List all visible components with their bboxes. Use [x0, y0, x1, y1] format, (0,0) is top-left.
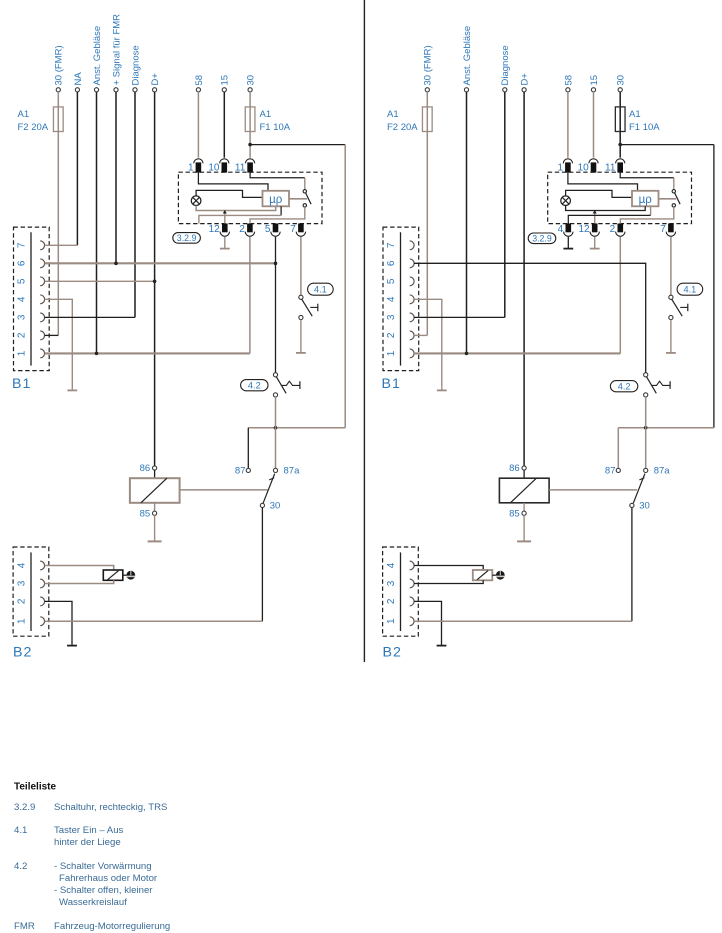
relay coil terminal 85 left: [154, 503, 156, 511]
connector B1 pin 3 socket right: [410, 313, 414, 322]
wire Diagnose line left: [133, 88, 137, 92]
svg-text:86: 86: [509, 463, 520, 474]
wire B1 pin7 to NA left: [45, 244, 78, 246]
relay contact 87a right: [644, 468, 648, 472]
svg-text:30 (FMR): 30 (FMR): [423, 45, 434, 85]
connector B1 pin 7 socket right: [410, 241, 414, 250]
svg-text:2: 2: [16, 332, 27, 338]
wire contact 30 down to B2 pin1 left: [261, 508, 263, 622]
wire microprocessor right to switch lever left: [289, 198, 307, 200]
ground B1 pin4 left: [71, 388, 73, 391]
svg-text:15: 15: [589, 75, 600, 86]
timer pin 11 right: [617, 162, 623, 172]
svg-text:- Schalter Vorwärmung: - Schalter Vorwärmung: [54, 861, 152, 872]
svg-text:NA: NA: [73, 72, 84, 86]
svg-text:F1 10A: F1 10A: [629, 122, 660, 133]
svg-text:10: 10: [208, 162, 220, 173]
svg-text:87: 87: [605, 466, 616, 477]
svg-text:3: 3: [16, 580, 27, 586]
wire timer pin11 to internal switch left: [250, 173, 305, 178]
switch 4.1 right (Taster Ein-Aus): [669, 295, 673, 299]
connector B1 pin 4 socket left: [40, 295, 44, 304]
svg-text:1: 1: [386, 618, 397, 624]
svg-text:6: 6: [16, 260, 27, 266]
timer pin 5 left: [273, 224, 279, 233]
wire Anst. Geblaese line left: [94, 88, 98, 92]
internal switch lever right: [675, 193, 681, 204]
wire microprocessor to box edge left: [280, 206, 282, 215]
connector B2 pin 2 socket right: [410, 597, 414, 606]
wire switch 4.2 to contact 87a left: [275, 397, 277, 468]
svg-text:5: 5: [265, 224, 271, 235]
wire B1 pin1 to timer pin2 left: [45, 352, 250, 354]
connector B1 pin 2 socket left: [40, 331, 44, 340]
svg-text:5: 5: [16, 278, 27, 284]
label 3.2.9 right: [528, 233, 556, 244]
fuse F2 20A left (A1): [53, 107, 63, 132]
svg-text:11: 11: [235, 162, 246, 173]
svg-text:30: 30: [246, 75, 257, 86]
wire terminal 15 left: [222, 88, 226, 92]
wire Anst. Geblaese line right: [464, 88, 468, 92]
svg-text:7: 7: [16, 242, 27, 248]
junction node +Signal on B1 pin6 wire left: [114, 262, 118, 266]
junction node Anst. Geblaese on B1 pin1 wire right: [465, 352, 469, 356]
timer pin 11 left: [247, 162, 253, 172]
wire right-edge drop right: [713, 145, 715, 428]
svg-text:3.2.9: 3.2.9: [177, 233, 197, 243]
svg-text:Schaltuhr, rechteckig, TRS: Schaltuhr, rechteckig, TRS: [54, 802, 167, 813]
relay actuation link left: [180, 489, 268, 491]
svg-text:Diagnose: Diagnose: [500, 45, 511, 85]
svg-text:12: 12: [209, 224, 221, 235]
wire timer pin1 to microprocessor right: [568, 173, 638, 191]
wire microprocessor right to switch lever right: [659, 198, 677, 200]
connector B1 pin 5 socket right: [410, 277, 414, 286]
fuse F1 10A right (A1): [615, 107, 625, 132]
svg-text:4: 4: [386, 296, 397, 302]
svg-text:Teileliste: Teileliste: [14, 782, 56, 793]
svg-text:7: 7: [386, 242, 397, 248]
connector B1 pin 7 socket left: [40, 241, 44, 250]
op-amp U1 microprocessor box left: [263, 191, 290, 207]
pump symbol right: [496, 571, 505, 580]
internal switch lever left: [306, 193, 312, 204]
ground timer pin 4 right: [567, 237, 569, 249]
heater element with pump left: [103, 570, 123, 580]
ground B2 pin2 left: [71, 642, 73, 646]
relay contact 30 left: [260, 503, 264, 507]
svg-text:+ Signal für FMR: + Signal für FMR: [111, 14, 122, 86]
svg-text:4.2: 4.2: [248, 380, 261, 390]
relay actuation link right: [549, 489, 637, 491]
wire terminal 30 right: [618, 88, 622, 92]
ground relay 85 left: [154, 515, 156, 541]
timer pin 2 left: [247, 224, 253, 233]
connector B1 pin 6 socket left: [40, 259, 44, 268]
svg-text:A1: A1: [18, 109, 30, 120]
relay coil terminal 86 right: [522, 466, 526, 470]
svg-text:58: 58: [194, 75, 205, 86]
wire B1 pin5 to D+ left: [45, 280, 155, 282]
svg-text:1: 1: [16, 618, 27, 624]
svg-text:4: 4: [16, 562, 27, 568]
svg-text:4.2: 4.2: [618, 381, 631, 391]
connector B1 pin 5 socket left: [40, 277, 44, 286]
wire terminal 30 left: [248, 88, 252, 92]
wire B2 pin3 to heater left: [45, 580, 114, 583]
svg-text:2: 2: [16, 598, 27, 604]
wire lamp bottom to microprocessor bottom right: [566, 206, 646, 211]
svg-text:30 (FMR): 30 (FMR): [54, 45, 65, 85]
wire B1 pin3 to Diagnose left: [45, 316, 135, 318]
svg-text:1: 1: [16, 350, 27, 356]
svg-text:30: 30: [639, 501, 650, 512]
wire B1 pin4 to ground left: [45, 299, 73, 388]
svg-text:Anst. Gebläse: Anst. Gebläse: [92, 26, 103, 86]
timer pin 10 left: [222, 162, 228, 172]
wire internal switch to timer pin2 right: [620, 207, 674, 223]
svg-text:3.2.9: 3.2.9: [14, 802, 35, 813]
wire D+ line left: [153, 88, 157, 92]
wire B2 pin2 to ground right: [414, 601, 441, 642]
label 4.2 right: [610, 381, 637, 392]
wire branch from fuse F1 to right edge right: [620, 144, 714, 146]
svg-text:4: 4: [386, 562, 397, 568]
connector B1 pin 4 socket right: [410, 295, 414, 304]
label 3.2.9 left: [173, 233, 201, 244]
svg-text:F2 20A: F2 20A: [18, 122, 49, 133]
wire microprocessor to timer pin4 right: [650, 206, 652, 215]
timer pin 2 right: [618, 224, 624, 233]
timer pin 10 right: [591, 162, 597, 172]
wire B1 pin4 to ground right: [414, 299, 442, 388]
svg-text:F1 10A: F1 10A: [260, 122, 291, 133]
svg-text:B2: B2: [383, 645, 402, 661]
wire timer pin11 to internal switch right: [620, 173, 674, 178]
wire timer pin12 arrow link left: [224, 213, 226, 224]
switch 4.2 right (Schalter Vorwaermung): [644, 373, 648, 377]
svg-text:12: 12: [578, 224, 590, 235]
svg-text:1: 1: [558, 162, 564, 173]
wire timer pin12 arrow link right: [594, 213, 596, 224]
svg-text:D+: D+: [520, 73, 531, 86]
connector B2 pin 1 socket left: [40, 617, 44, 626]
svg-text:4: 4: [558, 224, 564, 235]
wire terminal 15 right: [591, 88, 595, 92]
ground B2 pin2 right: [441, 642, 443, 646]
wire D+ line right: [522, 88, 526, 92]
svg-text:- Schalter offen, kleiner: - Schalter offen, kleiner: [54, 885, 153, 896]
wire internal switch to timer pin2 left: [250, 207, 305, 223]
connector B1 spine right: [400, 232, 402, 365]
fuse F2 20A right (A1): [422, 107, 432, 132]
ground B1 pin4 right: [441, 388, 443, 391]
pump symbol left: [126, 571, 135, 580]
wire lamp bottom to microprocessor bottom left: [196, 206, 276, 211]
wire B1 pin6 to switch 4.2 right: [414, 263, 646, 372]
svg-text:3: 3: [16, 314, 27, 320]
wire switch 4.2 to contact 87a right: [645, 397, 647, 468]
svg-text:4: 4: [16, 296, 27, 302]
svg-text:6: 6: [386, 260, 397, 266]
wire B1 pin6 to timer pin5 line left: [45, 262, 276, 264]
svg-text:2: 2: [386, 332, 397, 338]
wire terminal 58 right: [566, 88, 570, 92]
wire B2 pin1 to contact 30 left: [45, 620, 263, 622]
junction node D+ on B1 pin5 wire left: [153, 280, 157, 284]
relay contact 30 right: [630, 503, 634, 507]
svg-text:87a: 87a: [654, 466, 671, 477]
wire B2 pin1 to contact 30 right: [414, 620, 632, 622]
wire B1 pin2 to fuse F2 left: [45, 334, 59, 336]
label 4.2 left: [241, 380, 268, 391]
connector B1 pin 1 socket right: [410, 349, 414, 358]
relay contact 87 left: [247, 428, 249, 469]
svg-text:5: 5: [386, 278, 397, 284]
connector B2 pin 3 socket left: [40, 579, 44, 588]
connector B2 spine right: [400, 552, 402, 631]
connector B2 pin 1 socket right: [410, 617, 414, 626]
ground switch 4.1 right: [670, 320, 672, 353]
svg-text:µρ: µρ: [639, 194, 653, 206]
relay coil diagonal right: [510, 478, 536, 503]
wire B2 pin2 to ground left: [45, 601, 72, 642]
svg-text:D+: D+: [150, 73, 161, 86]
label 4.1 left: [308, 283, 334, 295]
svg-text:FMR: FMR: [14, 921, 35, 932]
svg-text:30: 30: [270, 501, 281, 512]
svg-text:Fahrerhaus oder Motor: Fahrerhaus oder Motor: [59, 873, 158, 884]
svg-text:2: 2: [386, 598, 397, 604]
fuse F1 10A left (A1): [245, 107, 255, 132]
svg-text:4.2: 4.2: [14, 861, 27, 872]
wire B1 pin2 to fuse F2 right: [414, 334, 427, 336]
timer pin 7 left: [298, 224, 304, 233]
connector B2 pin 4 socket right: [410, 561, 414, 570]
timer pin 4 right: [566, 224, 572, 233]
wire + Signal fuer FMR line left: [114, 88, 118, 92]
ground switch 4.1 left: [300, 320, 302, 353]
connector B2 pin 2 socket left: [40, 597, 44, 606]
internal switch contacts right: [672, 190, 675, 193]
svg-text:1: 1: [188, 162, 194, 173]
wire Diagnose line right: [503, 88, 507, 92]
wire 30 (FMR) supply line right: [425, 88, 429, 92]
wire lamp top to microprocessor left: [196, 190, 262, 197]
wire timer pin7 down to switch 4.1 right: [670, 237, 672, 295]
connector B2 pin 3 socket right: [410, 579, 414, 588]
wire right-edge drop left: [344, 145, 346, 428]
svg-text:3: 3: [386, 580, 397, 586]
junction node terminal30/branch left: [248, 143, 252, 147]
lamp symbol inside timer left: [191, 196, 201, 206]
svg-text:hinter der Liege: hinter der Liege: [54, 837, 121, 848]
svg-text:85: 85: [140, 508, 151, 519]
junction node timer pin5 on B1 pin6 wire left: [274, 262, 278, 266]
wire timer pin2 down right: [619, 237, 621, 354]
svg-text:Wasserkreislauf: Wasserkreislauf: [59, 897, 127, 908]
connector B1 box left: [14, 227, 50, 371]
svg-text:Fahrzeug-Motorregulierung: Fahrzeug-Motorregulierung: [54, 921, 170, 932]
timer pin 1 right: [565, 162, 571, 172]
wire lamp top to microprocessor right: [566, 190, 632, 197]
svg-text:B1: B1: [382, 376, 401, 392]
wire B1 pin3 to Diagnose right: [414, 316, 505, 318]
svg-text:7: 7: [660, 224, 666, 235]
svg-text:4.1: 4.1: [14, 825, 27, 836]
internal switch contacts left: [303, 190, 306, 193]
svg-text:15: 15: [220, 75, 231, 86]
relay contact 87a left: [273, 468, 277, 472]
svg-text:2: 2: [610, 224, 616, 235]
svg-text:Anst. Gebläse: Anst. Gebläse: [462, 26, 473, 86]
svg-text:86: 86: [140, 463, 151, 474]
wire B2 pin3 to heater right: [414, 580, 483, 583]
label 4.1 right: [677, 283, 703, 295]
svg-text:85: 85: [509, 508, 520, 519]
svg-text:A1: A1: [387, 109, 399, 120]
connector B1 pin 3 socket left: [40, 313, 44, 322]
svg-text:Diagnose: Diagnose: [130, 45, 141, 85]
svg-text:7: 7: [290, 224, 296, 235]
svg-text:4.1: 4.1: [684, 284, 697, 294]
wire 30 (FMR) supply line left: [56, 88, 60, 92]
heater element with pump right: [473, 570, 493, 580]
timer pin 7 right: [668, 224, 674, 233]
junction node terminal30/branch right: [618, 143, 622, 147]
wire timer pin2 down left: [249, 237, 251, 354]
wire B1 pin1 to timer pin2 right: [414, 352, 620, 354]
switch 4.1 left (Taster Ein-Aus): [299, 295, 303, 299]
svg-text:µρ: µρ: [269, 194, 283, 206]
connector B2 box left: [13, 547, 49, 636]
svg-text:58: 58: [563, 75, 574, 86]
wire horizontal feed to relay contacts left: [248, 427, 345, 429]
junction node Anst. Geblaese on B1 pin1 wire left: [95, 352, 99, 356]
timer box 3.2.9 left (Schaltuhr): [178, 172, 322, 223]
svg-text:A1: A1: [260, 109, 272, 120]
relay contact 87 right: [617, 428, 619, 469]
op-amp U1 microprocessor box right: [632, 191, 659, 207]
connector B2 spine left: [30, 552, 32, 631]
svg-text:1: 1: [386, 350, 397, 356]
relay coil terminal 85 right: [523, 503, 525, 511]
svg-text:Taster Ein – Aus: Taster Ein – Aus: [54, 825, 124, 836]
svg-text:3.2.9: 3.2.9: [532, 234, 552, 244]
wire timer pin5 down to switch 4.2 left: [275, 237, 277, 373]
timer pin 1 left: [196, 162, 202, 172]
connector B1 pin 2 socket right: [410, 331, 414, 340]
svg-text:A1: A1: [629, 109, 641, 120]
junction node on contact feed right: [644, 426, 648, 430]
svg-text:4.1: 4.1: [314, 284, 327, 294]
svg-text:2: 2: [239, 224, 245, 235]
connector B2 box right: [383, 547, 419, 636]
wire timer pin7 down to switch 4.1 left: [300, 237, 302, 295]
relay coil box K1 right: [523, 470, 525, 478]
relay contact lever right: [633, 474, 645, 504]
wire branch from fuse F1 to right edge left: [250, 144, 345, 146]
wire B2 pin4 to heater right: [414, 566, 483, 571]
wire NA line left: [75, 88, 79, 92]
wire terminal 58 left: [196, 88, 200, 92]
relay coil terminal 86 left: [153, 466, 157, 470]
wire B2 pin4 to heater left: [45, 566, 114, 571]
relay coil box K1 left: [154, 470, 156, 478]
svg-text:30: 30: [616, 75, 627, 86]
timer box 3.2.9 right (Schaltuhr): [548, 172, 692, 223]
connector B1 spine left: [30, 232, 32, 365]
connector B1 box right: [383, 227, 419, 371]
ground timer pin 12 right: [594, 237, 596, 249]
connector B2 pin 4 socket left: [40, 561, 44, 570]
svg-text:87a: 87a: [284, 466, 301, 477]
svg-text:B2: B2: [13, 645, 32, 661]
junction node on contact feed left: [274, 426, 278, 430]
wire horizontal feed to relay contacts right: [618, 427, 714, 429]
svg-text:B1: B1: [12, 376, 31, 392]
connector B1 pin 6 socket right: [410, 259, 414, 268]
timer pin 12 left: [222, 224, 228, 233]
wire timer pin1 to microprocessor left: [198, 173, 268, 191]
connector B1 pin 1 socket left: [40, 349, 44, 358]
ground timer pin 12 left: [224, 237, 226, 249]
svg-text:3: 3: [386, 314, 397, 320]
lamp symbol inside timer right: [561, 196, 571, 206]
timer pin 12 right: [592, 224, 598, 233]
wire contact 30 down to B2 pin1 right: [631, 508, 633, 622]
ground relay 85 right: [523, 515, 525, 541]
svg-text:11: 11: [605, 162, 616, 173]
svg-text:F2 20A: F2 20A: [387, 122, 418, 133]
relay contact lever left: [263, 474, 275, 504]
svg-text:87: 87: [235, 466, 246, 477]
relay coil diagonal left: [141, 478, 167, 503]
vertical divider between panels: [363, 0, 365, 662]
svg-text:10: 10: [578, 162, 590, 173]
switch 4.2 left (Schalter Vorwaermung): [273, 373, 277, 377]
